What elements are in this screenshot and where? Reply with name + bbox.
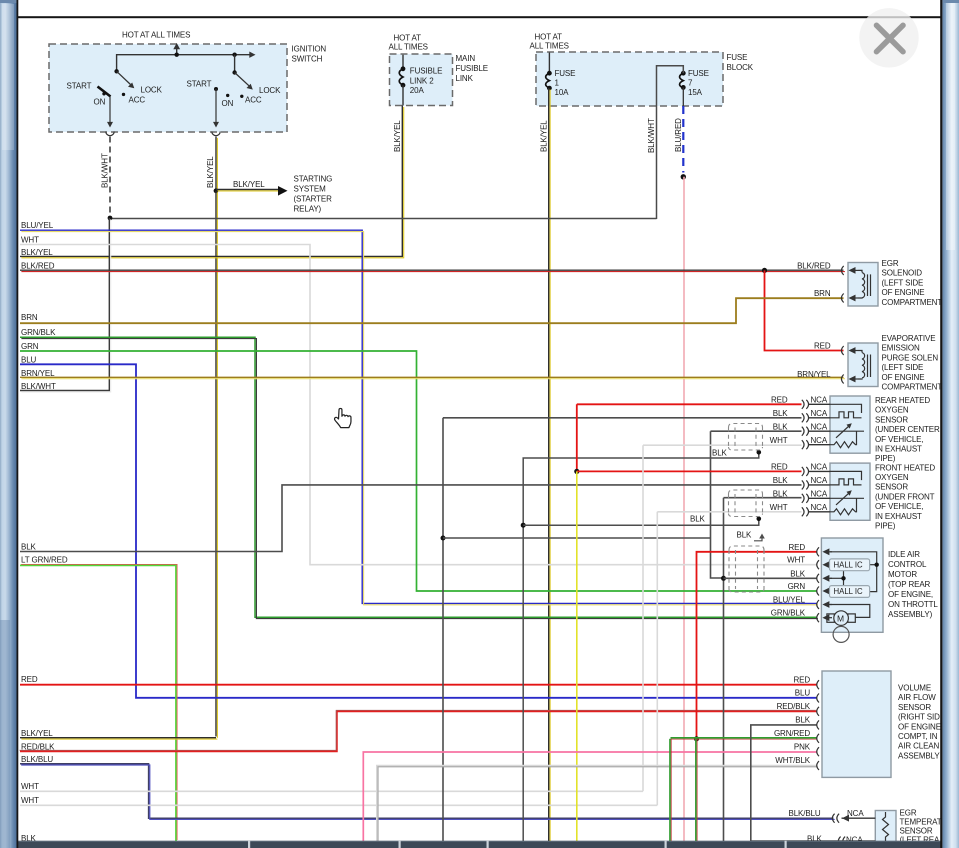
svg-text:BLK: BLK [773, 409, 789, 418]
svg-text:NCA: NCA [811, 436, 828, 445]
ignition switch box [49, 44, 287, 132]
svg-text:PURGE SOLEN: PURGE SOLEN [882, 353, 939, 362]
svg-text:WHT: WHT [21, 782, 39, 791]
svg-text:BLU/RED: BLU/RED [674, 118, 683, 152]
svg-text:TEMPERAT: TEMPERAT [900, 818, 942, 827]
node front shield drain dot [757, 517, 762, 522]
wire GRN/RED to VAF [671, 737, 817, 739]
mouse cursor [335, 408, 351, 427]
svg-text:IDLE AIR: IDLE AIR [888, 550, 920, 559]
IAC pin arrows [822, 548, 832, 621]
node splice starter [214, 188, 219, 193]
node BLK/WHT junction [108, 216, 113, 221]
IAC shield dashed box [729, 546, 764, 592]
wire WHT left lower2 [20, 804, 657, 806]
fuse block box [536, 52, 723, 106]
wire RED branch to evap solenoid [765, 270, 844, 350]
wire BRN/YEL left to evap solenoid [20, 376, 844, 378]
IAC pin arcs [817, 547, 819, 622]
bottom toolbar [18, 841, 942, 848]
fusible link 2 element [399, 55, 442, 106]
svg-text:RED: RED [814, 342, 831, 351]
EGR temp pin BLK bottom [751, 834, 876, 845]
wire GRN/BLK left to IAC [20, 337, 817, 617]
node BLU/RED splice [681, 174, 686, 179]
svg-text:FUSIBLE: FUSIBLE [456, 64, 489, 73]
svg-text:RELAY): RELAY) [294, 205, 322, 214]
node bus junction 1 [175, 53, 179, 57]
wire RED vertical x577 [576, 404, 578, 471]
svg-text:CONTROL: CONTROL [888, 560, 927, 569]
label EGR TEMPERATURE SENSOR [900, 809, 942, 845]
svg-text:IN EXHAUST: IN EXHAUST [875, 445, 922, 454]
svg-text:BLK/YEL: BLK/YEL [540, 120, 549, 152]
sensor front heated oxygen [770, 463, 870, 521]
svg-text:GRN/BLK: GRN/BLK [21, 328, 56, 337]
wire PNK to VAF [363, 752, 816, 841]
label EGR SOLENOID [882, 259, 943, 307]
svg-text:LT GRN/RED: LT GRN/RED [21, 555, 68, 564]
svg-text:VOLUME: VOLUME [898, 684, 931, 693]
svg-text:BLK/WHT: BLK/WHT [21, 382, 56, 391]
svg-text:ON: ON [94, 98, 106, 107]
svg-text:BLK: BLK [737, 531, 753, 540]
node IAC hall junction 2 [841, 576, 845, 580]
svg-text:GRN: GRN [788, 582, 806, 591]
node GRN/RED junction [694, 736, 699, 741]
svg-text:PIPE): PIPE) [875, 454, 896, 463]
svg-text:ALL TIMES: ALL TIMES [530, 42, 569, 51]
wire WHT left to IAC [20, 245, 817, 565]
HALL IC 2 [830, 586, 870, 598]
svg-text:SENSOR: SENSOR [875, 415, 908, 424]
IAC wire color labels [771, 543, 806, 618]
node BLK/RED junction [762, 268, 767, 273]
right strip upper thumb [946, 0, 955, 250]
wire WHT front O2 pin via x657 [657, 512, 801, 806]
svg-text:OF ENGINE: OF ENGINE [882, 373, 925, 382]
svg-text:OF ENGINE: OF ENGINE [882, 288, 925, 297]
svg-text:LINK 2: LINK 2 [410, 77, 434, 86]
wire BLK/BLU left to EGR temp sensor [20, 764, 834, 818]
solenoid EGR [797, 261, 878, 306]
label STARTING SYSTEM (STARTER RELAY) [294, 175, 333, 214]
svg-text:PIPE): PIPE) [875, 522, 896, 531]
svg-text:RED: RED [788, 543, 805, 552]
wire BLU left to VAF [20, 364, 817, 698]
diagram right border [940, 0, 942, 848]
svg-text:BLK/BLU: BLK/BLU [789, 809, 821, 818]
wire BLK/YEL left bottom [20, 737, 216, 739]
svg-text:BLK: BLK [773, 476, 789, 485]
svg-text:(UNDER CENTER: (UNDER CENTER [875, 425, 940, 434]
svg-text:ASSEMBLY: ASSEMBLY [898, 751, 940, 760]
wire RED IAC pin via x696 [697, 552, 817, 739]
svg-text:(STARTER: (STARTER [294, 195, 333, 204]
svg-text:M: M [837, 614, 844, 624]
svg-text:BLK: BLK [712, 448, 728, 457]
svg-text:OF ENGINE: OF ENGINE [898, 722, 941, 731]
wire shield drain bus x523 [523, 452, 759, 841]
svg-text:IGNITION: IGNITION [292, 45, 327, 54]
svg-text:BLK/YEL: BLK/YEL [21, 729, 53, 738]
wire BLK/RED left to EGR solenoid [20, 269, 844, 271]
sensor volume air flow [774, 671, 891, 777]
wire BLK/WHT dashed from ignition [109, 137, 111, 216]
svg-text:OXYGEN: OXYGEN [875, 473, 909, 482]
svg-text:EVAPORATIVE: EVAPORATIVE [882, 334, 936, 343]
label VOLUME AIR FLOW SENSOR [898, 684, 941, 761]
wire BLK branch to IAC shield [443, 537, 711, 539]
wire BLK/YEL from fuse 1 down [548, 88, 550, 841]
node bus junction 2 [232, 53, 236, 57]
svg-text:FRONT HEATED: FRONT HEATED [875, 463, 935, 472]
svg-text:LOCK: LOCK [141, 86, 163, 95]
wire BLU/RED dashed from fuse 7 [682, 87, 684, 106]
label FRONT HEATED OXYGEN SENSOR [875, 463, 935, 530]
wire BLK/YEL fusible link down [20, 106, 402, 257]
svg-text:BLK: BLK [773, 422, 789, 431]
svg-text:(LEFT SIDE: (LEFT SIDE [882, 278, 924, 287]
svg-text:WHT: WHT [21, 236, 39, 245]
svg-text:SOLENOID: SOLENOID [882, 269, 923, 278]
wire BLK left bottom [20, 842, 751, 844]
svg-text:SYSTEM: SYSTEM [294, 185, 327, 194]
svg-text:FUSE: FUSE [727, 53, 748, 62]
svg-text:BLK/WHT: BLK/WHT [101, 153, 110, 188]
HALL IC 1 [830, 559, 870, 571]
svg-text:7: 7 [688, 79, 693, 88]
VAF wire color labels [774, 675, 811, 765]
switch ignition right half [187, 55, 282, 136]
svg-text:RED: RED [793, 675, 810, 684]
svg-text:STARTING: STARTING [294, 175, 333, 184]
label HOT AT ALL TIMES (fuse block) [530, 33, 569, 51]
wire BLU/YEL left to IAC [20, 230, 817, 603]
strip top caps [0, 0, 17, 3]
svg-text:PNK: PNK [794, 742, 811, 751]
wire BLK/YEL from ignition down to splice [215, 137, 217, 190]
svg-text:EGR: EGR [882, 259, 899, 268]
wire WHT left lower1 [20, 790, 643, 792]
svg-text:WHT/BLK: WHT/BLK [775, 756, 811, 765]
wire GRN/RED vertical x696 [695, 739, 697, 841]
label EVAPORATIVE EMISSION PURGE SOLENOID [882, 334, 943, 392]
wire RED front O2 pin [577, 470, 802, 472]
wire BLK/YEL ignition splice down [215, 191, 217, 737]
wire BLK left mid to front O2 [20, 485, 802, 552]
svg-text:BLU: BLU [21, 355, 37, 364]
svg-text:WHT: WHT [770, 503, 788, 512]
svg-text:BLU/YEL: BLU/YEL [21, 221, 54, 230]
label FUSE BLOCK [727, 53, 754, 72]
svg-text:MOTOR: MOTOR [888, 570, 917, 579]
svg-text:FUSIBLE: FUSIBLE [410, 67, 443, 76]
svg-text:BLK/WHT: BLK/WHT [647, 118, 656, 153]
svg-text:WHT: WHT [770, 436, 788, 445]
svg-text:RED: RED [771, 396, 788, 405]
svg-text:RED: RED [771, 463, 788, 472]
wire LT GRN/RED left down [20, 565, 176, 841]
wire BLK rear O2 pin1 and vertical x443 [443, 418, 802, 841]
svg-text:SENSOR: SENSOR [900, 827, 933, 836]
svg-text:BLK: BLK [790, 569, 806, 578]
left scrollbar strip [0, 0, 17, 848]
motor lower circle [833, 626, 849, 642]
wire BLK VAF pin via x751 [751, 725, 817, 841]
svg-text:REAR HEATED: REAR HEATED [875, 396, 930, 405]
svg-text:START: START [67, 82, 92, 91]
wire BLK/WHT down to left label [20, 218, 109, 391]
svg-text:ASSEMBLY): ASSEMBLY) [888, 610, 933, 619]
svg-text:15A: 15A [688, 88, 703, 97]
svg-text:HALL IC: HALL IC [834, 561, 864, 570]
svg-text:BLK/YEL: BLK/YEL [21, 248, 53, 257]
left strip upper thumb [2, 4, 14, 150]
sensor EGR temperature [751, 809, 896, 848]
svg-text:OF VEHICLE,: OF VEHICLE, [875, 502, 923, 511]
svg-text:BLK/RED: BLK/RED [797, 261, 831, 270]
wire BLK front O2 pin2 via x723 [724, 498, 802, 841]
fuse 1 10A [546, 53, 576, 98]
svg-text:BRN: BRN [21, 313, 38, 322]
label HOT AT ALL TIMES (fusible link) [389, 34, 428, 52]
svg-text:BLK/BLU: BLK/BLU [21, 755, 53, 764]
svg-text:NCA: NCA [811, 503, 828, 512]
svg-text:BLK: BLK [21, 543, 37, 552]
svg-text:ON THROTTL: ON THROTTL [888, 600, 938, 609]
svg-text:GRN: GRN [21, 342, 39, 351]
svg-text:(RIGHT SID: (RIGHT SID [898, 713, 940, 722]
rear O2 shield dashed box [729, 424, 763, 451]
wire RED rear O2 pin [577, 403, 802, 405]
svg-text:BLK/YEL: BLK/YEL [233, 180, 265, 189]
svg-text:NCA: NCA [811, 396, 828, 405]
fuse 7 15A [680, 69, 709, 97]
svg-text:WHT: WHT [21, 796, 39, 805]
left strip lower shade [0, 620, 10, 848]
front O2 shield dashed box [729, 490, 763, 517]
diagram left border [17, 0, 19, 848]
svg-text:NCA: NCA [811, 490, 828, 499]
svg-text:START: START [187, 80, 212, 89]
svg-text:NCA: NCA [811, 463, 828, 472]
svg-text:HALL IC: HALL IC [834, 587, 864, 596]
svg-text:BLOCK: BLOCK [727, 63, 754, 72]
svg-text:OF ENGINE,: OF ENGINE, [888, 590, 933, 599]
wire WHT rear O2 pin via x643 [643, 445, 802, 791]
svg-text:COMPARTMENT: COMPARTMENT [882, 298, 943, 307]
svg-text:OXYGEN: OXYGEN [875, 406, 909, 415]
wire BLK/WHT horizontal tie [110, 218, 657, 220]
svg-text:AIR FLOW: AIR FLOW [898, 693, 936, 702]
svg-text:HOT AT: HOT AT [394, 34, 422, 43]
svg-text:ACC: ACC [245, 96, 262, 105]
switch ignition left half [67, 69, 163, 136]
svg-text:NCA: NCA [847, 809, 864, 818]
svg-text:RED/BLK: RED/BLK [777, 702, 811, 711]
wire BLK IAC pin line [724, 577, 817, 579]
svg-text:BRN: BRN [814, 289, 831, 298]
node IAC hall junction 1 [875, 563, 879, 567]
right scrollbar strip [943, 0, 959, 848]
svg-text:WHT: WHT [787, 556, 805, 565]
wire BLK rear O2 pin2 via x710 [711, 431, 802, 578]
node BLK junction x443 [441, 536, 446, 541]
motor M symbol [827, 611, 855, 626]
solenoid EVAP purge [797, 342, 878, 387]
svg-text:BLU: BLU [795, 689, 811, 698]
svg-text:BLK: BLK [773, 490, 789, 499]
svg-text:FUSE: FUSE [555, 69, 576, 78]
node RED junction [574, 469, 579, 474]
label IDLE AIR CONTROL MOTOR [888, 550, 938, 619]
wire BLK/YEL to starting system arrow [216, 180, 288, 196]
svg-text:BLK/RED: BLK/RED [21, 261, 55, 270]
svg-text:SWITCH: SWITCH [292, 55, 323, 64]
label MAIN FUSIBLE LINK [456, 54, 489, 83]
svg-text:ALL TIMES: ALL TIMES [389, 43, 428, 52]
svg-text:LINK: LINK [456, 74, 474, 83]
svg-text:(TOP REAR: (TOP REAR [888, 580, 931, 589]
svg-text:BLK/YEL: BLK/YEL [206, 156, 215, 188]
label REAR HEATED OXYGEN SENSOR [875, 396, 940, 463]
svg-text:20A: 20A [410, 86, 425, 95]
motor idle air control [771, 538, 883, 642]
svg-text:RED/BLK: RED/BLK [21, 742, 55, 751]
wire RED/BLK left to VAF [20, 711, 817, 751]
svg-text:NCA: NCA [811, 422, 828, 431]
wire PNK continuation down [683, 177, 685, 841]
wire YEL vertical below junction [576, 471, 578, 841]
sensor rear heated oxygen [770, 396, 870, 454]
svg-text:OF VEHICLE,: OF VEHICLE, [875, 435, 923, 444]
node BLK junction x723 [721, 576, 726, 581]
svg-text:(UNDER FRONT: (UNDER FRONT [875, 492, 935, 501]
svg-text:EMISSION: EMISSION [882, 344, 920, 353]
label IGNITION SWITCH [292, 45, 327, 64]
svg-text:SENSOR: SENSOR [875, 483, 908, 492]
wire BLK/WHT fuse7 top jumper [657, 66, 684, 219]
svg-text:FUSE: FUSE [688, 69, 709, 78]
svg-text:COMPARTMENT: COMPARTMENT [882, 383, 943, 392]
svg-text:EGR: EGR [900, 809, 917, 818]
svg-text:SENSOR: SENSOR [898, 703, 931, 712]
svg-text:10A: 10A [555, 88, 570, 97]
svg-text:BLU/YEL: BLU/YEL [773, 596, 806, 605]
svg-text:IN EXHAUST: IN EXHAUST [875, 512, 922, 521]
svg-text:GRN/RED: GRN/RED [774, 729, 810, 738]
node shield drain junction x523 [521, 523, 526, 528]
svg-text:HOT AT ALL TIMES: HOT AT ALL TIMES [122, 31, 190, 40]
wire BRN left to EGR solenoid [20, 298, 844, 323]
svg-text:ON: ON [222, 99, 234, 108]
svg-text:ACC: ACC [129, 96, 146, 105]
wire RED left to VAF [20, 684, 817, 686]
IAC internal wiring [830, 552, 877, 618]
svg-text:BRN/YEL: BRN/YEL [797, 370, 831, 379]
close button [859, 8, 918, 67]
svg-text:MAIN: MAIN [456, 54, 476, 63]
svg-text:BRN/YEL: BRN/YEL [21, 369, 55, 378]
svg-text:HOT AT: HOT AT [535, 33, 563, 42]
wire WHT/BLK to VAF [377, 766, 817, 842]
node rear shield drain dot [757, 450, 762, 455]
wire GRN left to IAC [20, 351, 817, 591]
svg-text:1: 1 [555, 79, 560, 88]
main fusible link box [390, 54, 453, 106]
svg-text:AIR CLEAN: AIR CLEAN [898, 742, 939, 751]
svg-text:BLK/YEL: BLK/YEL [393, 120, 402, 152]
svg-text:NCA: NCA [811, 409, 828, 418]
svg-text:NCA: NCA [811, 476, 828, 485]
diagram top border [17, 16, 942, 18]
svg-text:(LEFT SIDE: (LEFT SIDE [882, 363, 924, 372]
svg-text:COMPT, IN: COMPT, IN [898, 732, 938, 741]
svg-text:LOCK: LOCK [259, 86, 281, 95]
EGR temp pin BLK/BLU [789, 809, 876, 823]
svg-text:BLK: BLK [795, 716, 811, 725]
svg-text:RED: RED [21, 675, 38, 684]
wire front shield drain [523, 519, 759, 525]
svg-text:GRN/BLK: GRN/BLK [771, 609, 806, 618]
wire GRN/RED vertical x670 [669, 739, 671, 841]
wire ignition hot bus [117, 43, 256, 71]
VAF pin arcs [817, 680, 819, 770]
svg-text:BLK: BLK [690, 515, 706, 524]
